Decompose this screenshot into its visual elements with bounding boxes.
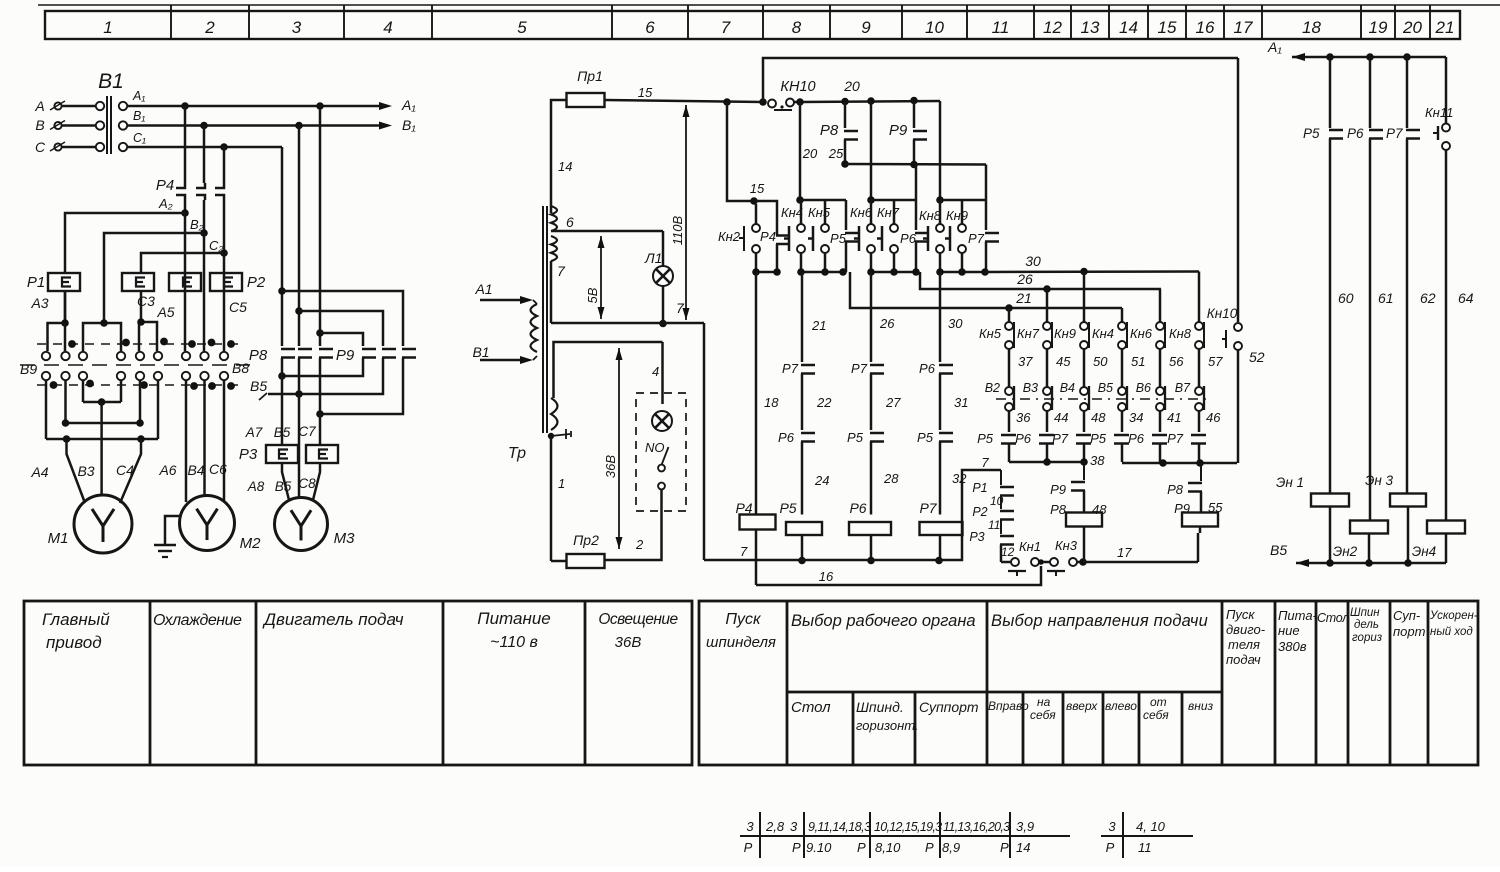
- wire A1 rail: [127, 105, 385, 108]
- svg-text:1: 1: [558, 476, 565, 491]
- svg-text:Р: Р: [1106, 840, 1115, 855]
- svg-text:21: 21: [1015, 290, 1032, 306]
- svg-text:24: 24: [814, 473, 829, 488]
- rail to KN10 upper: [763, 58, 1238, 102]
- wire A2 down: [184, 213, 187, 291]
- svg-text:КН10: КН10: [780, 79, 815, 95]
- svg-text:С4: С4: [116, 462, 134, 478]
- wire group1 feed: [799, 102, 802, 200]
- wire P1 to plug: [64, 291, 67, 323]
- return wire 3: [320, 358, 403, 414]
- return wire 1: [282, 358, 363, 376]
- return wire 2: [268, 358, 383, 394]
- svg-text:4: 4: [652, 364, 659, 379]
- secondary lower bottom: [548, 433, 554, 439]
- svg-text:Кн7: Кн7: [1017, 326, 1040, 341]
- svg-text:В2: В2: [985, 381, 1000, 395]
- bus bar mid: [66, 422, 141, 425]
- svg-text:Р7: Р7: [782, 361, 799, 376]
- wire phase C down: [281, 147, 284, 346]
- svg-text:С₁: С₁: [133, 131, 146, 145]
- svg-text:Р6: Р6: [1347, 126, 1364, 141]
- switch in lamp box: [658, 465, 665, 472]
- svg-text:Р5: Р5: [917, 430, 934, 445]
- svg-text:Шпин: Шпин: [1350, 607, 1380, 619]
- group3 bottoms: [939, 253, 942, 272]
- wire P7 coil bottom: [939, 535, 942, 561]
- svg-text:Кн4: Кн4: [781, 205, 803, 220]
- svg-text:Питание: Питание: [477, 609, 550, 628]
- dim 110V: [685, 105, 687, 320]
- wire top rail right: [793, 101, 800, 104]
- svg-text:Р3: Р3: [239, 446, 258, 463]
- svg-text:4: 4: [383, 18, 392, 37]
- svg-text:В8: В8: [232, 360, 249, 376]
- svg-text:8,10: 8,10: [875, 840, 901, 855]
- svg-text:С8: С8: [298, 476, 316, 491]
- svg-text:28: 28: [883, 471, 899, 486]
- svg-text:22: 22: [816, 395, 832, 410]
- svg-text:В1: В1: [472, 344, 489, 360]
- dashed link upper: [37, 343, 243, 345]
- transformer secondary upper: [551, 206, 557, 231]
- reference table 2: [1101, 835, 1193, 837]
- svg-text:7: 7: [557, 263, 566, 279]
- svg-text:порт: порт: [1393, 624, 1426, 639]
- svg-text:Р8: Р8: [249, 347, 268, 364]
- svg-text:3: 3: [790, 819, 798, 834]
- svg-text:8: 8: [792, 18, 802, 37]
- svg-text:Кн8: Кн8: [919, 208, 942, 223]
- svg-text:11: 11: [988, 518, 1000, 532]
- svg-text:Р: Р: [1000, 840, 1009, 855]
- dim 36V: [618, 348, 620, 549]
- svg-text:15: 15: [1158, 18, 1177, 37]
- svg-text:Р5: Р5: [830, 231, 847, 246]
- svg-text:6: 6: [645, 18, 655, 37]
- svg-text:Р: Р: [744, 840, 753, 855]
- svg-text:3: 3: [292, 18, 302, 37]
- svg-text:вниз: вниз: [1188, 699, 1214, 713]
- svg-text:Главный: Главный: [42, 610, 110, 629]
- wire B5 bottom: [1296, 562, 1446, 565]
- wire P2 to plug: [223, 291, 226, 351]
- tap 7 lead: [550, 261, 553, 323]
- wire A6: [185, 380, 188, 502]
- wire to collector: [1046, 444, 1049, 463]
- wire to switch В2: [1008, 349, 1011, 387]
- wire C6: [223, 380, 226, 502]
- motor M2: [180, 496, 235, 551]
- svg-text:Кн6: Кн6: [850, 205, 873, 220]
- wire A1 into primary: [480, 299, 525, 302]
- svg-text:В5: В5: [1270, 542, 1287, 558]
- svg-text:14: 14: [1119, 18, 1138, 37]
- svg-text:на: на: [1037, 695, 1051, 709]
- wire A4: [67, 439, 86, 503]
- svg-text:ние: ние: [1278, 623, 1300, 638]
- legend table left: [24, 601, 692, 765]
- wire group2 feed: [870, 101, 873, 200]
- svg-text:Пр1: Пр1: [577, 68, 603, 84]
- svg-text:А7: А7: [245, 425, 263, 440]
- wire 60 top: [1329, 57, 1332, 128]
- wire plug leg 5: [139, 380, 142, 423]
- ruler strip: [38, 4, 1500, 6]
- svg-text:17: 17: [1234, 18, 1253, 37]
- svg-text:9: 9: [861, 18, 871, 37]
- svg-text:С7: С7: [298, 424, 316, 439]
- wire 36V top: [554, 342, 663, 398]
- wire phase B down: [298, 126, 301, 347]
- svg-text:Р8: Р8: [820, 122, 839, 139]
- svg-text:привод: привод: [46, 633, 102, 652]
- svg-text:26: 26: [879, 316, 895, 331]
- plug pins row 2: [42, 372, 50, 380]
- svg-text:Р5: Р5: [1303, 126, 1320, 141]
- wire phase A through P4: [184, 106, 187, 183]
- wire to motor b: [298, 358, 301, 394]
- svg-text:А4: А4: [30, 464, 48, 480]
- svg-text:Пита-: Пита-: [1278, 608, 1318, 623]
- svg-text:~110 в: ~110 в: [490, 634, 538, 651]
- svg-text:18: 18: [1302, 18, 1321, 37]
- dash-link of selectors: [996, 398, 1212, 400]
- crossover wire B: [299, 311, 383, 346]
- svg-text:48: 48: [1091, 410, 1106, 425]
- svg-text:Ускорен-: Ускорен-: [1429, 610, 1478, 622]
- button Kn10: [1237, 58, 1240, 322]
- lamp box dashed: [636, 393, 686, 511]
- wire 62 top: [1406, 57, 1409, 128]
- wire C4: [120, 439, 141, 503]
- wire coil P8 bottom: [1083, 527, 1086, 563]
- svg-text:Кн11: Кн11: [1425, 105, 1453, 120]
- wire C2 down: [223, 253, 226, 291]
- svg-text:NO: NO: [645, 440, 665, 455]
- svg-text:37: 37: [1018, 354, 1033, 369]
- wire interlock bottom: [1000, 545, 1003, 563]
- svg-text:Стол: Стол: [1317, 611, 1349, 625]
- svg-text:8,9: 8,9: [942, 840, 960, 855]
- svg-text:36: 36: [1016, 410, 1031, 425]
- svg-text:60: 60: [1338, 290, 1354, 306]
- wire C2 branch: [141, 253, 224, 273]
- wire down to node 15: [727, 102, 754, 201]
- node B2: [200, 229, 208, 237]
- wire P5 coil bottom: [801, 535, 804, 561]
- svg-text:Освещение: Освещение: [598, 611, 678, 628]
- svg-text:Р9: Р9: [1050, 482, 1066, 497]
- svg-text:56: 56: [1169, 354, 1184, 369]
- wire to collector: [1008, 444, 1011, 463]
- svg-text:4, 10: 4, 10: [1136, 819, 1166, 834]
- wire phase B through P4: [203, 126, 206, 184]
- plug separation line: [20, 364, 250, 366]
- svg-text:Шпинд.: Шпинд.: [856, 699, 904, 715]
- wire node7 right: [551, 322, 704, 325]
- wire 15 node: [723, 98, 731, 106]
- wire to contact Р5: [1121, 411, 1124, 432]
- wire to switch В4: [1083, 349, 1086, 387]
- svg-text:45: 45: [1056, 354, 1071, 369]
- transformer secondary lower: [551, 398, 558, 430]
- svg-text:9.10: 9.10: [806, 840, 832, 855]
- bus bar V3: [83, 401, 121, 404]
- svg-text:11,13,16,20,3: 11,13,16,20,3: [943, 820, 1010, 834]
- collector bar right: [1122, 462, 1237, 465]
- svg-text:В5: В5: [1098, 381, 1113, 395]
- svg-text:Р4: Р4: [156, 177, 174, 194]
- wire 64: [1445, 150, 1448, 521]
- svg-text:шпинделя: шпинделя: [706, 634, 776, 651]
- svg-text:2,8: 2,8: [765, 819, 785, 834]
- svg-text:С6: С6: [209, 461, 227, 477]
- thermal relay P3b: [306, 445, 338, 463]
- svg-text:Р5: Р5: [847, 430, 864, 445]
- svg-text:20: 20: [802, 146, 818, 161]
- svg-text:16: 16: [1196, 18, 1215, 37]
- svg-text:Р2: Р2: [972, 505, 987, 519]
- svg-text:380в: 380в: [1278, 639, 1307, 654]
- crossover wire C: [282, 291, 403, 346]
- svg-text:Эн 3: Эн 3: [1365, 473, 1394, 488]
- wire to P3 a: [281, 358, 284, 376]
- wire between buttons: [1039, 561, 1050, 564]
- svg-text:Р1: Р1: [972, 481, 987, 495]
- svg-text:20: 20: [1402, 18, 1422, 37]
- wire to switch В3: [1046, 349, 1049, 387]
- svg-text:Р: Р: [925, 840, 934, 855]
- svg-text:Р4: Р4: [760, 229, 776, 244]
- heater En4: [1427, 521, 1465, 534]
- wire P9 aux branch: [913, 101, 916, 129]
- svg-text:Р6: Р6: [849, 500, 866, 516]
- wire plug leg 3: [82, 380, 85, 402]
- wire B4: [203, 380, 206, 497]
- wire phase C through P4: [223, 147, 226, 183]
- svg-text:20: 20: [843, 78, 860, 94]
- svg-text:3: 3: [1108, 819, 1116, 834]
- svg-text:Выбор рабочего органа: Выбор рабочего органа: [791, 612, 976, 630]
- svg-text:5: 5: [517, 18, 527, 37]
- svg-text:Р6: Р6: [778, 430, 795, 445]
- wire Kn2 down: [755, 204, 758, 224]
- wire to contact Р5: [1008, 411, 1011, 432]
- svg-text:В₁: В₁: [402, 117, 416, 133]
- button Кн7: [1046, 289, 1049, 322]
- svg-text:3: 3: [746, 819, 754, 834]
- svg-text:Кн9: Кн9: [1054, 326, 1076, 341]
- wire lamp box top: [661, 342, 664, 404]
- group1 bottoms: [800, 253, 803, 272]
- svg-text:Р1: Р1: [27, 274, 45, 291]
- branch 21 vertical: [801, 272, 804, 362]
- svg-text:В4: В4: [187, 462, 204, 478]
- button Кн8: [1198, 272, 1201, 323]
- svg-text:62: 62: [1420, 290, 1436, 306]
- svg-text:В4: В4: [1060, 381, 1075, 395]
- svg-text:36В: 36В: [615, 634, 642, 651]
- svg-text:12: 12: [1043, 18, 1062, 37]
- svg-text:Суппорт: Суппорт: [919, 699, 979, 715]
- svg-text:В7: В7: [1175, 381, 1191, 395]
- svg-text:2: 2: [635, 537, 644, 552]
- wire P8 aux branch: [844, 102, 847, 129]
- svg-text:1: 1: [103, 18, 112, 37]
- svg-text:А₁: А₁: [401, 97, 416, 113]
- wire fuse2 left: [551, 560, 567, 563]
- plug bracket 1: [48, 291, 66, 351]
- wire A8: [282, 463, 289, 500]
- svg-text:гориз: гориз: [1352, 632, 1383, 644]
- bus bar bottom: [46, 438, 158, 441]
- svg-text:Кн1: Кн1: [1019, 539, 1041, 554]
- svg-text:46: 46: [1206, 410, 1221, 425]
- wire to contact Р6: [1046, 411, 1049, 432]
- wire 61: [1369, 139, 1372, 522]
- svg-text:10,12,15,19,3: 10,12,15,19,3: [874, 820, 942, 834]
- svg-text:В9: В9: [20, 361, 37, 377]
- ground symbol: [165, 516, 181, 545]
- wire B2 branch: [104, 233, 204, 322]
- wire to switch В6: [1159, 349, 1162, 387]
- svg-text:Л1: Л1: [644, 250, 662, 266]
- svg-text:А6: А6: [158, 462, 176, 478]
- svg-text:А: А: [34, 98, 44, 114]
- wire to contact Р7: [1083, 411, 1086, 432]
- svg-text:Двигатель подач: Двигатель подач: [262, 610, 404, 629]
- svg-text:64: 64: [1458, 290, 1474, 306]
- lamp NO: [652, 411, 672, 431]
- svg-text:Р6: Р6: [1128, 431, 1145, 446]
- svg-text:7: 7: [981, 455, 989, 470]
- svg-text:А1: А1: [474, 281, 492, 297]
- wire to P3 c: [319, 358, 322, 414]
- svg-text:дель: дель: [1354, 619, 1379, 631]
- svg-text:Охлаждение: Охлаждение: [153, 612, 242, 629]
- svg-text:Кн7: Кн7: [877, 205, 900, 220]
- svg-text:А₂: А₂: [158, 196, 173, 211]
- transformer primary: [531, 304, 538, 352]
- legend sub row line: [787, 691, 1222, 694]
- wire 15 top: [605, 100, 764, 102]
- node A2: [181, 209, 189, 217]
- svg-text:от: от: [1150, 695, 1167, 709]
- svg-text:двиго-: двиго-: [1226, 622, 1266, 637]
- group2 bottoms: [870, 253, 873, 272]
- svg-text:36В: 36В: [603, 455, 618, 478]
- wire to collector: [1198, 444, 1201, 463]
- svg-text:27: 27: [885, 395, 901, 410]
- node C cross: [278, 287, 286, 295]
- svg-text:Кн5: Кн5: [808, 205, 831, 220]
- wire 17: [1083, 561, 1198, 564]
- wire heater3 to plug: [184, 291, 187, 351]
- wire lamp bottom: [662, 286, 665, 323]
- wire heater2 to plug: [140, 291, 143, 322]
- plug bracket 2: [83, 323, 121, 351]
- svg-text:25: 25: [828, 146, 844, 161]
- svg-text:Стол: Стол: [791, 699, 831, 716]
- svg-text:Р7: Р7: [851, 361, 868, 376]
- wire A to switch: [62, 105, 96, 108]
- svg-text:Кн4: Кн4: [1092, 326, 1114, 341]
- svg-text:Р: Р: [792, 840, 801, 855]
- svg-text:В1: В1: [98, 70, 124, 93]
- svg-text:Р8: Р8: [1167, 482, 1184, 497]
- svg-text:Р8: Р8: [1050, 502, 1067, 517]
- svg-text:61: 61: [1378, 290, 1394, 306]
- svg-text:30: 30: [1025, 253, 1041, 269]
- wire down right: [939, 101, 942, 200]
- svg-text:Кн8: Кн8: [1169, 326, 1192, 341]
- wire plug leg 6: [157, 380, 160, 439]
- svg-text:М3: М3: [334, 530, 355, 547]
- svg-text:Кн9: Кн9: [946, 208, 968, 223]
- wire lamp box bottom: [605, 490, 662, 560]
- wire A1 right rail: [1292, 56, 1446, 59]
- svg-text:Р7: Р7: [1052, 431, 1069, 446]
- svg-text:Кн3: Кн3: [1055, 538, 1078, 553]
- svg-text:В3: В3: [77, 463, 94, 479]
- wire B1 rail: [127, 124, 385, 127]
- svg-text:влево: влево: [1105, 699, 1137, 713]
- wire 62: [1406, 139, 1409, 495]
- svg-text:34: 34: [1129, 410, 1143, 425]
- svg-text:51: 51: [1131, 354, 1145, 369]
- svg-text:Р3: Р3: [969, 530, 984, 544]
- svg-text:21: 21: [1435, 18, 1455, 37]
- legend table right: [699, 601, 1478, 765]
- wire to switch В5: [1121, 349, 1124, 387]
- node A cross: [316, 329, 324, 337]
- motor M3: [275, 498, 328, 551]
- svg-text:В5: В5: [250, 378, 267, 394]
- wire 21: [850, 272, 1122, 308]
- svg-text:Выбор направления подачи: Выбор направления подачи: [991, 612, 1208, 630]
- wire to contact Р6: [1159, 411, 1162, 432]
- svg-text:21: 21: [811, 318, 826, 333]
- wire to collector: [1083, 444, 1086, 463]
- svg-text:14: 14: [558, 159, 572, 174]
- svg-text:110В: 110В: [670, 215, 685, 245]
- svg-text:2: 2: [204, 18, 215, 37]
- svg-text:Р: Р: [857, 840, 866, 855]
- svg-text:10: 10: [925, 18, 944, 37]
- svg-text:3,9: 3,9: [1016, 819, 1034, 834]
- svg-text:Суп-: Суп-: [1393, 608, 1421, 623]
- wire 14: [551, 100, 567, 213]
- crossover wire A: [320, 333, 363, 346]
- wire P4 coil bottom: [755, 530, 758, 586]
- dashed link lower: [37, 384, 243, 386]
- svg-text:Кн2: Кн2: [718, 229, 741, 244]
- group2 top bar: [871, 199, 916, 202]
- svg-text:Р6: Р6: [900, 231, 917, 246]
- svg-text:Пр2: Пр2: [573, 532, 599, 548]
- button Кн9: [1083, 272, 1086, 323]
- wire 7: [704, 470, 1001, 560]
- collector bar left: [1009, 461, 1084, 464]
- wire B2 down: [203, 233, 206, 351]
- svg-text:26: 26: [1016, 271, 1033, 287]
- svg-text:38: 38: [1090, 453, 1105, 468]
- button Кн6: [1159, 289, 1162, 322]
- svg-text:В₂: В₂: [190, 217, 204, 232]
- svg-text:17: 17: [1117, 545, 1132, 560]
- svg-text:В3: В3: [1023, 381, 1038, 395]
